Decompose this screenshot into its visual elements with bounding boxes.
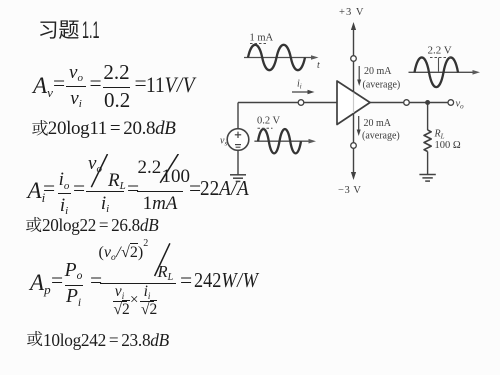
svg-text:20 mA: 20 mA [364, 118, 392, 129]
node on supply line (bottom) [351, 143, 357, 149]
wire: +3V supply vertical line, upper segment [353, 25, 355, 56]
node on output wire (left) [404, 100, 410, 106]
ground (source) [230, 175, 246, 182]
svg-text:0.2 V: 0.2 V [257, 116, 281, 127]
svg-text:2.2 V: 2.2 V [428, 45, 452, 57]
formula Ai [28, 179, 46, 202]
svg-text:−3 V: −3 V [338, 185, 362, 196]
fraction (2.2 / 100) over 1mA [137, 154, 183, 213]
formula Ap [30, 271, 51, 294]
arrow up to +3V [351, 22, 356, 30]
junction dot at RL [425, 100, 430, 105]
0.2 V sine wave [258, 129, 301, 153]
i_i arrow [292, 91, 309, 93]
wire: amplifier output wire [370, 102, 448, 104]
svg-text:+3 V: +3 V [339, 7, 365, 18]
svg-text:(average): (average) [363, 79, 401, 90]
wire: source top lead [237, 103, 239, 129]
20 mA current arrow (upper) [358, 66, 360, 82]
node terminal v_o [448, 100, 454, 106]
supply line faintly visible inside triangle [353, 93, 355, 114]
20 mA current arrow (lower) [358, 116, 360, 132]
svg-text:vo: vo [456, 99, 465, 111]
2.2 V sine wave [415, 57, 459, 87]
svg-text:1 mA: 1 mA [250, 32, 274, 43]
arrow down to -3V [351, 172, 356, 180]
wire: supply line through amplifier [353, 61, 355, 142]
voltage source vs [227, 129, 249, 151]
ground (RL) [419, 175, 435, 182]
big fraction ((v_o/sqrt2)^2 / R_L) over (v_i/sqrt2 x i_i/sqrt2) [100, 242, 176, 322]
dashed peak marker (1 mA) [250, 43, 267, 45]
hanzi 题 [58, 20, 78, 39]
svg-text:100 Ω: 100 Ω [435, 140, 461, 151]
node on input wire [298, 100, 304, 106]
hanzi 或 [26, 330, 43, 347]
resistor RL zigzag [424, 130, 431, 152]
hanzi 习 [40, 21, 56, 38]
wire: RL bottom lead to ground [427, 152, 429, 175]
hanzi 或 [25, 216, 42, 233]
svg-text:t: t [317, 60, 320, 71]
svg-text:RL: RL [434, 129, 445, 141]
1 mA sine wave [248, 45, 305, 70]
node on supply line (top) [351, 56, 357, 62]
wire: supply line to -3V, lower segment [353, 148, 355, 174]
1 mA waveform axis [244, 57, 313, 59]
svg-text:20 mA: 20 mA [364, 66, 392, 77]
0.2 V waveform axis [254, 140, 310, 142]
op-amp amplifier triangle [337, 81, 370, 125]
svg-text:ii: ii [297, 79, 302, 91]
formula Av [33, 74, 53, 97]
wire: source bottom lead to ground [237, 150, 239, 174]
wire: input wire from source to amplifier [238, 102, 337, 104]
wire: RL top lead [427, 103, 429, 131]
title 习题1.1 [38, 16, 158, 47]
svg-text:(average): (average) [362, 130, 400, 141]
big fraction (v_o / R_L) over i_i [86, 154, 124, 213]
dashed peak marker (0.2 V) [258, 127, 273, 129]
svg-text:vs: vs [220, 136, 227, 148]
2.2 V waveform axis [409, 71, 475, 73]
dashed peak marker (2.2 V) with tick to axis [430, 57, 452, 59]
hanzi 或 [31, 119, 49, 137]
